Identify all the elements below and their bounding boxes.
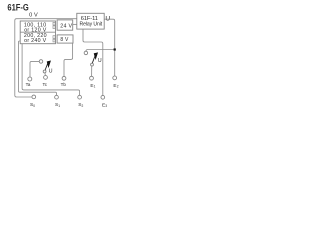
- connector pins 24V box left edge: [58, 23, 60, 29]
- transformer primary voltage selector box: [20, 21, 55, 44]
- svg-text:Ta: Ta: [26, 82, 31, 87]
- right contact pivot: [91, 63, 94, 66]
- svg-text:24 V: 24 V: [60, 23, 72, 29]
- svg-text:1: 1: [58, 104, 60, 108]
- svg-text:Relay Unit: Relay Unit: [80, 21, 103, 27]
- wire relay unit right side to E2 line: [104, 19, 115, 76]
- svg-text:61F-G: 61F-G: [7, 2, 28, 13]
- junction dot at E2 line: [114, 48, 116, 50]
- terminal Ta: [28, 77, 32, 81]
- svg-text:1: 1: [94, 85, 96, 89]
- terminal E2: [113, 76, 117, 80]
- terminal Tb: [62, 76, 66, 80]
- svg-text:0: 0: [33, 104, 35, 108]
- contact fixed right (to E2): [84, 51, 88, 55]
- svg-text:2: 2: [117, 85, 119, 89]
- wire 24V box to relay unit: [73, 23, 77, 25]
- svg-text:U: U: [98, 58, 102, 64]
- svg-text:3: 3: [105, 104, 107, 108]
- svg-text:U: U: [49, 68, 53, 74]
- right contact moving arm flag: [92, 55, 95, 64]
- contact fixed left (to Ta): [39, 60, 43, 64]
- svg-text:Tc: Tc: [43, 82, 48, 87]
- connector pins voltage box right edge row 2: [53, 36, 55, 42]
- left contact pivot: [43, 70, 46, 73]
- svg-text:or 240 V: or 240 V: [24, 38, 47, 44]
- wire S1 tap from voltage box left edge down to S1: [19, 41, 57, 95]
- terminal S1: [55, 95, 59, 99]
- wire pivot to E1: [91, 66, 93, 76]
- wire S2 tap from voltage box bottom down to S2: [22, 44, 80, 95]
- terminal E3: [101, 95, 105, 99]
- wire 8V box to Tb: [64, 43, 73, 77]
- left contact moving arm flag: [45, 63, 48, 72]
- wire relay unit bottom to electrode E3: [83, 29, 103, 95]
- svg-text:2: 2: [82, 104, 84, 108]
- wire pivot to Tc: [44, 73, 47, 76]
- terminal E1: [90, 76, 94, 80]
- svg-text:Tb: Tb: [61, 82, 67, 87]
- transformer secondary 24 V box: [57, 20, 73, 30]
- svg-text:0 V: 0 V: [29, 13, 38, 19]
- terminal S0: [32, 95, 36, 99]
- svg-text:8 V: 8 V: [60, 37, 69, 43]
- connector pins voltage box right edge row 1: [53, 22, 55, 28]
- wire left contact fixed down to Ta: [30, 61, 39, 77]
- transformer secondary 8 V box: [57, 35, 73, 43]
- wire 0V line to relay unit and down-left to S0: [15, 19, 77, 97]
- terminal Tc: [44, 76, 48, 80]
- wire right contact fixed to junction on E2 line: [86, 50, 115, 52]
- terminal S2: [78, 95, 82, 99]
- relay unit 61F-11 box: [77, 13, 104, 29]
- divider between voltage rows: [20, 31, 55, 33]
- connector pins 8V box left edge: [58, 36, 60, 42]
